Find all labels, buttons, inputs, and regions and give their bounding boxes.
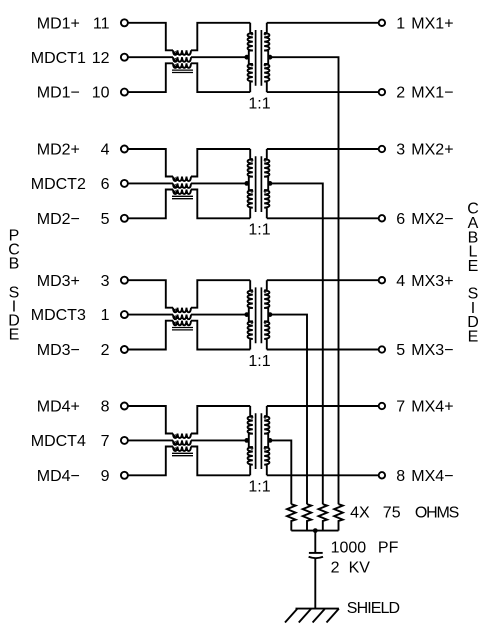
terminal MX1+ pin 1 [379, 20, 385, 26]
wire MDCT to primary center tap [191, 314, 249, 316]
wire secondary bottom to MX3− [267, 349, 379, 351]
choke L1 winding c polarity dot [174, 65, 176, 67]
choke L3 winding b polarity dot [174, 316, 176, 318]
wire resistor bus [291, 530, 338, 532]
transformer T2 primary lower winding [248, 190, 253, 218]
choke L2 core [172, 196, 193, 198]
transformer T1 secondary lower winding [264, 64, 269, 92]
wire choke to transformer primary bottom [191, 63, 250, 92]
svg-text:E: E [468, 328, 479, 345]
common-mode choke L1 winding a [173, 50, 191, 55]
svg-text:MD4−: MD4− [37, 468, 80, 485]
transformer T2 primary center-tap jog [249, 177, 253, 190]
transformer T4 secondary upper winding [264, 406, 269, 434]
svg-text:E: E [468, 258, 479, 275]
transformer T2 core [256, 156, 262, 212]
transformer T2 secondary upper winding [264, 149, 269, 177]
junction dot primary center tap [244, 181, 249, 186]
wire MD3+ to choke [128, 280, 173, 308]
transformer T3 core [256, 287, 262, 343]
transformer T1 secondary upper winding [264, 23, 269, 51]
junction dot secondary center tap [268, 181, 273, 186]
transformer T1 primary polarity dots [251, 33, 253, 35]
wire secondary top to MX4+ [267, 405, 379, 407]
svg-text:6: 6 [396, 211, 405, 228]
svg-text:MX4−: MX4− [411, 468, 453, 485]
wire secondary center tap to resistor [268, 315, 307, 505]
wire MDCT4 to choke [128, 439, 173, 441]
transformer T4 secondary center-tap jog [264, 434, 268, 447]
wire secondary bottom to MX1− [267, 91, 379, 93]
choke L2 winding c polarity dot [174, 191, 176, 193]
common-mode choke L4 winding b [173, 440, 191, 445]
common-mode choke L3 winding c [173, 321, 191, 326]
wire choke to transformer primary bottom [191, 190, 250, 219]
wire secondary bottom to MX2− [267, 217, 379, 219]
resistor R1 75 ohms [287, 504, 296, 530]
ground hatch [313, 609, 325, 623]
junction dot secondary center tap [268, 312, 273, 317]
common-mode choke L1 winding b [173, 57, 191, 62]
terminal MDCT1 pin 12 [121, 54, 128, 61]
transformer T3 primary lower winding [248, 321, 253, 349]
transformer T1 secondary center-tap jog [264, 51, 268, 64]
transformer T4 primary polarity dots [251, 416, 253, 418]
resistor R3 75 ohms [318, 504, 327, 530]
svg-text:5: 5 [101, 211, 110, 228]
ground hatch [285, 609, 297, 623]
wire MD2− to choke [128, 190, 173, 219]
svg-text:3: 3 [101, 273, 110, 290]
svg-text:11: 11 [93, 15, 110, 32]
svg-text:1:1: 1:1 [248, 96, 270, 113]
resistor R4 75 ohms [334, 504, 343, 530]
terminal MDCT2 pin 6 [121, 180, 128, 187]
terminal MD3− pin 2 [121, 346, 128, 353]
terminal MX3− pin 5 [379, 346, 385, 352]
transformer T3 primary center-tap jog [249, 308, 253, 321]
terminal MX4+ pin 7 [379, 403, 385, 409]
transformer T4 primary lower winding [248, 447, 253, 475]
choke L1 winding b polarity dot [174, 59, 176, 61]
terminal MX2− pin 6 [379, 215, 385, 221]
wire MD4+ to choke [128, 406, 173, 434]
common-mode choke L4 winding a [173, 434, 191, 439]
wire MDCT to primary center tap [191, 182, 249, 184]
svg-text:MX3−: MX3− [411, 342, 453, 359]
terminal MD2+ pin 4 [121, 146, 128, 153]
svg-text:SHIELD: SHIELD [347, 600, 400, 617]
svg-text:9: 9 [101, 468, 110, 485]
terminal MDCT3 pin 1 [121, 311, 128, 318]
choke L3 winding c polarity dot [174, 322, 176, 324]
junction dot secondary center tap [268, 438, 273, 443]
svg-text:KV: KV [349, 560, 371, 577]
terminal MD1+ pin 11 [121, 19, 128, 26]
choke L4 winding b polarity dot [174, 442, 176, 444]
svg-text:MDCT3: MDCT3 [31, 307, 86, 324]
transformer T3 secondary polarity dots [264, 291, 266, 293]
wire MDCT to primary center tap [191, 56, 249, 58]
transformer T1 core [256, 30, 262, 86]
wire MD4− to choke [128, 447, 173, 476]
terminal MX3+ pin 4 [379, 277, 385, 283]
svg-text:2: 2 [396, 85, 405, 102]
transformer T1 primary upper winding [248, 23, 253, 51]
wire MDCT1 to choke [128, 56, 173, 58]
common-mode choke L2 winding b [173, 183, 191, 188]
terminal MX4− pin 8 [379, 472, 385, 478]
wire MD2+ to choke [128, 149, 173, 177]
svg-text:MX4+: MX4+ [411, 399, 453, 416]
svg-text:MDCT2: MDCT2 [31, 176, 86, 193]
wire choke to transformer primary top [191, 23, 250, 51]
svg-text:1: 1 [101, 307, 110, 324]
svg-text:4X: 4X [350, 505, 370, 522]
label CABLE SIDE (vertical) [467, 201, 479, 346]
transformer T4 secondary lower winding [264, 447, 269, 475]
resistor R2 75 ohms [303, 504, 312, 530]
ground hatch [299, 609, 311, 623]
svg-text:OHMS: OHMS [415, 505, 459, 522]
capacitor C1 bottom plate [309, 557, 323, 558]
wire choke to transformer primary top [191, 149, 250, 177]
terminal MDCT4 pin 7 [121, 437, 128, 444]
terminal MD4+ pin 8 [121, 403, 128, 410]
choke L4 core [172, 453, 193, 455]
svg-text:10: 10 [92, 85, 110, 102]
terminal MX1− pin 2 [379, 89, 385, 95]
label PCB SIDE (vertical) [8, 228, 20, 344]
svg-text:MD3−: MD3− [37, 342, 80, 359]
svg-text:4: 4 [101, 142, 110, 159]
svg-text:1000: 1000 [331, 539, 367, 556]
transformer T3 secondary lower winding [264, 321, 269, 349]
junction dot primary center tap [244, 312, 249, 317]
svg-text:MD2+: MD2+ [37, 142, 80, 159]
common-mode choke L1 winding c [173, 63, 191, 68]
choke L1 core [172, 70, 193, 72]
svg-text:PF: PF [378, 539, 399, 556]
transformer T3 secondary upper winding [264, 280, 269, 308]
svg-text:8: 8 [396, 468, 405, 485]
svg-text:2: 2 [101, 342, 110, 359]
wire secondary bottom to MX4− [267, 474, 379, 476]
choke L3 core [172, 328, 193, 330]
junction dot primary center tap [244, 438, 249, 443]
wire choke to transformer primary top [191, 406, 250, 434]
svg-text:7: 7 [101, 433, 110, 450]
svg-text:1: 1 [396, 15, 405, 32]
wire choke to transformer primary top [191, 280, 250, 308]
transformer T4 core [256, 413, 262, 469]
svg-text:MX1−: MX1− [411, 85, 453, 102]
wire MD1+ to choke [128, 23, 173, 51]
svg-text:8: 8 [101, 399, 110, 416]
wire secondary center tap to resistor [268, 57, 338, 504]
svg-text:MDCT1: MDCT1 [31, 50, 86, 67]
svg-text:5: 5 [396, 342, 405, 359]
svg-text:1:1: 1:1 [248, 222, 270, 239]
transformer T2 secondary lower winding [264, 190, 269, 218]
wire MDCT to primary center tap [191, 439, 249, 441]
svg-text:MX1+: MX1+ [411, 15, 453, 32]
chassis ground (shield) [296, 608, 339, 610]
svg-text:E: E [9, 327, 20, 344]
transformer T4 primary center-tap jog [249, 434, 253, 447]
capacitor C1 1000 pF top plate [309, 552, 323, 554]
svg-text:MX2−: MX2− [411, 211, 453, 228]
choke L1 winding a polarity dot [174, 52, 176, 54]
transformer T2 secondary center-tap jog [264, 177, 268, 190]
wire capacitor to shield ground [314, 559, 316, 609]
svg-text:75: 75 [383, 505, 401, 522]
choke L2 winding a polarity dot [174, 178, 176, 180]
common-mode choke L2 winding c [173, 190, 191, 195]
transformer T2 primary upper winding [248, 149, 253, 177]
svg-text:MD4+: MD4+ [37, 399, 80, 416]
choke L3 winding a polarity dot [174, 309, 176, 311]
transformer T1 secondary polarity dots [264, 33, 266, 35]
svg-text:3: 3 [396, 142, 405, 159]
junction dot primary center tap [244, 55, 249, 60]
common-mode choke L3 winding b [173, 315, 191, 320]
wire choke to transformer primary bottom [191, 321, 250, 350]
transformer T2 secondary polarity dots [264, 159, 266, 161]
transformer T2 primary polarity dots [251, 159, 253, 161]
choke L2 winding b polarity dot [174, 185, 176, 187]
wire secondary center tap to resistor [268, 440, 291, 504]
svg-text:12: 12 [92, 50, 110, 67]
transformer T4 primary upper winding [248, 406, 253, 434]
svg-text:MDCT4: MDCT4 [31, 433, 86, 450]
wire MDCT3 to choke [128, 314, 173, 316]
choke L4 winding c polarity dot [174, 448, 176, 450]
wire choke to transformer primary bottom [191, 447, 250, 476]
choke L4 winding a polarity dot [174, 435, 176, 437]
wire secondary top to MX1+ [267, 22, 379, 24]
junction dot secondary center tap [268, 55, 273, 60]
svg-text:MD2−: MD2− [37, 211, 80, 228]
transformer T3 primary upper winding [248, 280, 253, 308]
svg-text:MX3+: MX3+ [411, 273, 453, 290]
common-mode choke L3 winding a [173, 308, 191, 313]
common-mode choke L2 winding a [173, 177, 191, 182]
wire secondary center tap to resistor [268, 183, 323, 504]
wire MD1− to choke [128, 63, 173, 92]
svg-text:6: 6 [101, 176, 110, 193]
wire secondary top to MX2+ [267, 148, 379, 150]
terminal MX2+ pin 3 [379, 146, 385, 152]
transformer T1 primary lower winding [248, 64, 253, 92]
junction dot bus to capacitor [313, 528, 318, 533]
svg-text:MX2+: MX2+ [411, 142, 453, 159]
common-mode choke L4 winding c [173, 447, 191, 452]
svg-text:4: 4 [396, 273, 405, 290]
wire MDCT2 to choke [128, 182, 173, 184]
terminal MD4− pin 9 [121, 472, 128, 479]
svg-text:7: 7 [396, 399, 405, 416]
ground hatch [327, 609, 339, 623]
terminal MD2− pin 5 [121, 215, 128, 222]
wire bus to capacitor [314, 531, 316, 553]
transformer T3 primary polarity dots [251, 291, 253, 293]
transformer T3 secondary center-tap jog [264, 308, 268, 321]
svg-text:B: B [9, 256, 20, 273]
wire MD3− to choke [128, 321, 173, 350]
svg-text:1:1: 1:1 [248, 479, 270, 496]
transformer T4 secondary polarity dots [264, 416, 266, 418]
svg-text:1:1: 1:1 [248, 353, 270, 370]
svg-text:MD3+: MD3+ [37, 273, 80, 290]
wire secondary top to MX3+ [267, 279, 379, 281]
svg-text:MD1−: MD1− [37, 85, 80, 102]
terminal MD3+ pin 3 [121, 277, 128, 284]
svg-text:2: 2 [331, 560, 340, 577]
terminal MD1− pin 10 [121, 89, 128, 96]
transformer T1 primary center-tap jog [249, 51, 253, 64]
svg-text:MD1+: MD1+ [37, 15, 80, 32]
